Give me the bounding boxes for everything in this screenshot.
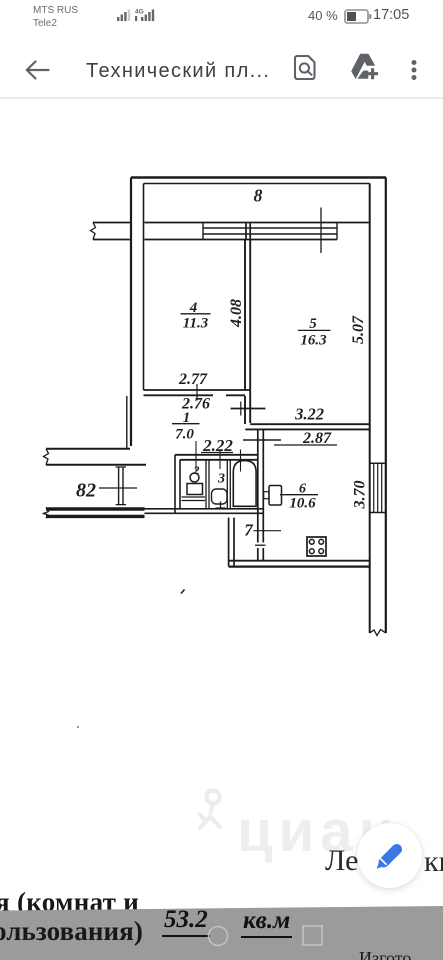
leader line label 2 — [195, 441, 197, 471]
bottom scan text above band — [0, 887, 139, 918]
wall divider wc — [206, 460, 209, 509]
window balcony lines — [203, 222, 370, 224]
break mark hall upper — [44, 449, 49, 465]
underline 2.22 — [201, 452, 233, 454]
door tick kitchen — [243, 439, 281, 441]
battery icon — [344, 9, 372, 25]
signal bars sim2 — [135, 10, 154, 22]
wall balcony top inner — [144, 183, 370, 185]
wall left inner upper — [143, 184, 145, 391]
door tick bathroom — [240, 450, 242, 472]
toolbar title — [86, 60, 270, 83]
wall right inner — [369, 184, 371, 634]
serif fragments — [325, 844, 358, 878]
toilet — [190, 473, 199, 482]
wall hall82 lower band — [46, 507, 145, 510]
wall bathroom top — [175, 455, 258, 460]
leader label 82 — [99, 487, 137, 489]
window balcony right cap — [336, 223, 338, 240]
break mark protrusion — [91, 223, 96, 240]
door tick room4 — [196, 384, 198, 401]
fridge — [269, 486, 282, 506]
wall kitchen left — [258, 429, 264, 560]
stray dot — [77, 726, 79, 728]
status bar — [33, 4, 78, 30]
break mark hall lower — [44, 507, 49, 518]
stray mark — [181, 590, 185, 594]
wall kitchen top — [245, 424, 369, 429]
leader label 7 — [254, 530, 282, 532]
underline 2.87 — [274, 444, 337, 446]
wall bathroom bottom — [145, 509, 264, 514]
icon: drive add — [350, 53, 380, 81]
dim tick balcony window — [320, 208, 322, 254]
gray band — [0, 900, 443, 960]
window right wall — [370, 463, 386, 512]
bathtub — [233, 461, 256, 507]
wall corridor7 left — [229, 518, 234, 567]
wall right outer — [385, 178, 387, 634]
icon: overflow menu — [407, 58, 421, 84]
window mullion / divider top — [246, 223, 250, 241]
window balcony left cap — [202, 223, 204, 240]
FAB — [357, 823, 422, 888]
wall left outer — [130, 178, 132, 447]
fraction bars — [181, 313, 211, 315]
door corridor7-kitchen — [255, 544, 266, 546]
wall protrusion top — [93, 222, 203, 224]
toolbar back arrow — [22, 56, 52, 84]
wall left lower double — [126, 396, 128, 448]
wall divider bath — [227, 460, 230, 509]
wall bathroom left — [175, 455, 180, 514]
stove — [307, 537, 326, 556]
icon: search in document — [293, 54, 317, 81]
wall divider rooms 4-5 — [245, 240, 250, 424]
washbasin — [212, 489, 228, 504]
toolbar divider — [0, 97, 443, 99]
wall balcony top outer — [131, 176, 386, 178]
wall hall82 upper — [46, 449, 146, 465]
wall protrusion bottom — [93, 239, 337, 241]
entry door — [119, 467, 123, 506]
leader label 3 — [219, 451, 221, 469]
door tick room5 — [231, 408, 266, 410]
wall bottom kitchen — [229, 560, 370, 562]
break mark right wall bottom — [370, 630, 386, 636]
wall corridor top — [144, 390, 251, 395]
dim stub — [240, 402, 242, 416]
signal bars sim1 — [117, 10, 130, 22]
